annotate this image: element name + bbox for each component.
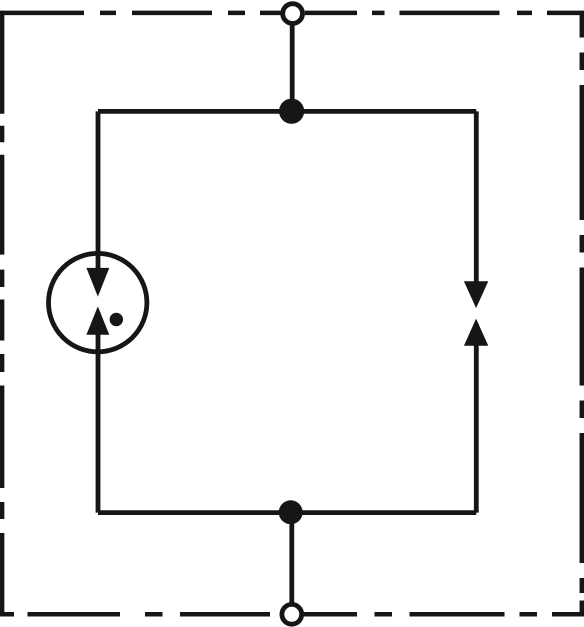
wire right branch lower bbox=[474, 324, 479, 513]
node junction top bbox=[279, 99, 304, 124]
wire top stub (terminal to junction) bbox=[290, 14, 295, 111]
spark gap arrow upper (down-pointing) bbox=[464, 281, 488, 308]
enclosure boundary right (dash-dot) bbox=[580, 11, 584, 616]
wire left branch lower bbox=[96, 312, 101, 513]
terminal top (open circle) bbox=[283, 4, 303, 24]
spark gap arrow lower (up-pointing) bbox=[464, 319, 488, 346]
wire top rail bbox=[98, 109, 476, 114]
surge arrester (gas discharge tube) circle bbox=[48, 253, 146, 351]
node junction bottom bbox=[279, 500, 303, 524]
wire right branch upper bbox=[474, 111, 479, 302]
surge arrester gas-filled dot bbox=[110, 313, 123, 326]
terminal bottom (open circle) bbox=[282, 604, 302, 624]
enclosure boundary bottom (dash-dot) bbox=[0, 612, 584, 617]
enclosure boundary left (dash-dot) bbox=[0, 11, 4, 616]
surge arrester arrow lower (up-pointing) bbox=[86, 306, 109, 334]
surge arrester arrow upper (down-pointing) bbox=[86, 268, 109, 297]
wire left branch upper bbox=[96, 111, 101, 291]
wire bottom stub (junction to terminal) bbox=[289, 513, 294, 615]
wire bottom rail bbox=[98, 510, 476, 515]
enclosure boundary top (dash-dot) bbox=[0, 11, 584, 16]
